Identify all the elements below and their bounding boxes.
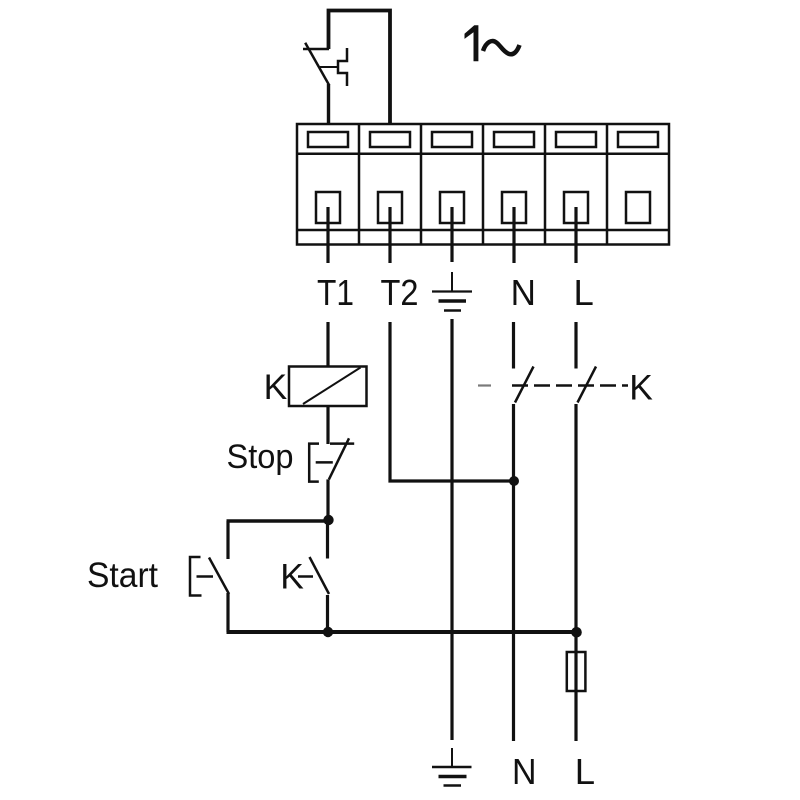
svg-text:L: L (575, 751, 595, 792)
svg-text:Stop: Stop (227, 438, 294, 476)
svg-text:T2: T2 (381, 272, 419, 313)
svg-text:Start: Start (87, 556, 158, 595)
svg-text:L: L (574, 272, 594, 313)
svg-text:K: K (264, 367, 288, 407)
svg-text:T1: T1 (317, 272, 354, 313)
svg-text:N: N (512, 751, 537, 792)
svg-text:K: K (629, 367, 653, 407)
svg-text:K: K (280, 556, 304, 596)
svg-text:N: N (511, 272, 536, 313)
